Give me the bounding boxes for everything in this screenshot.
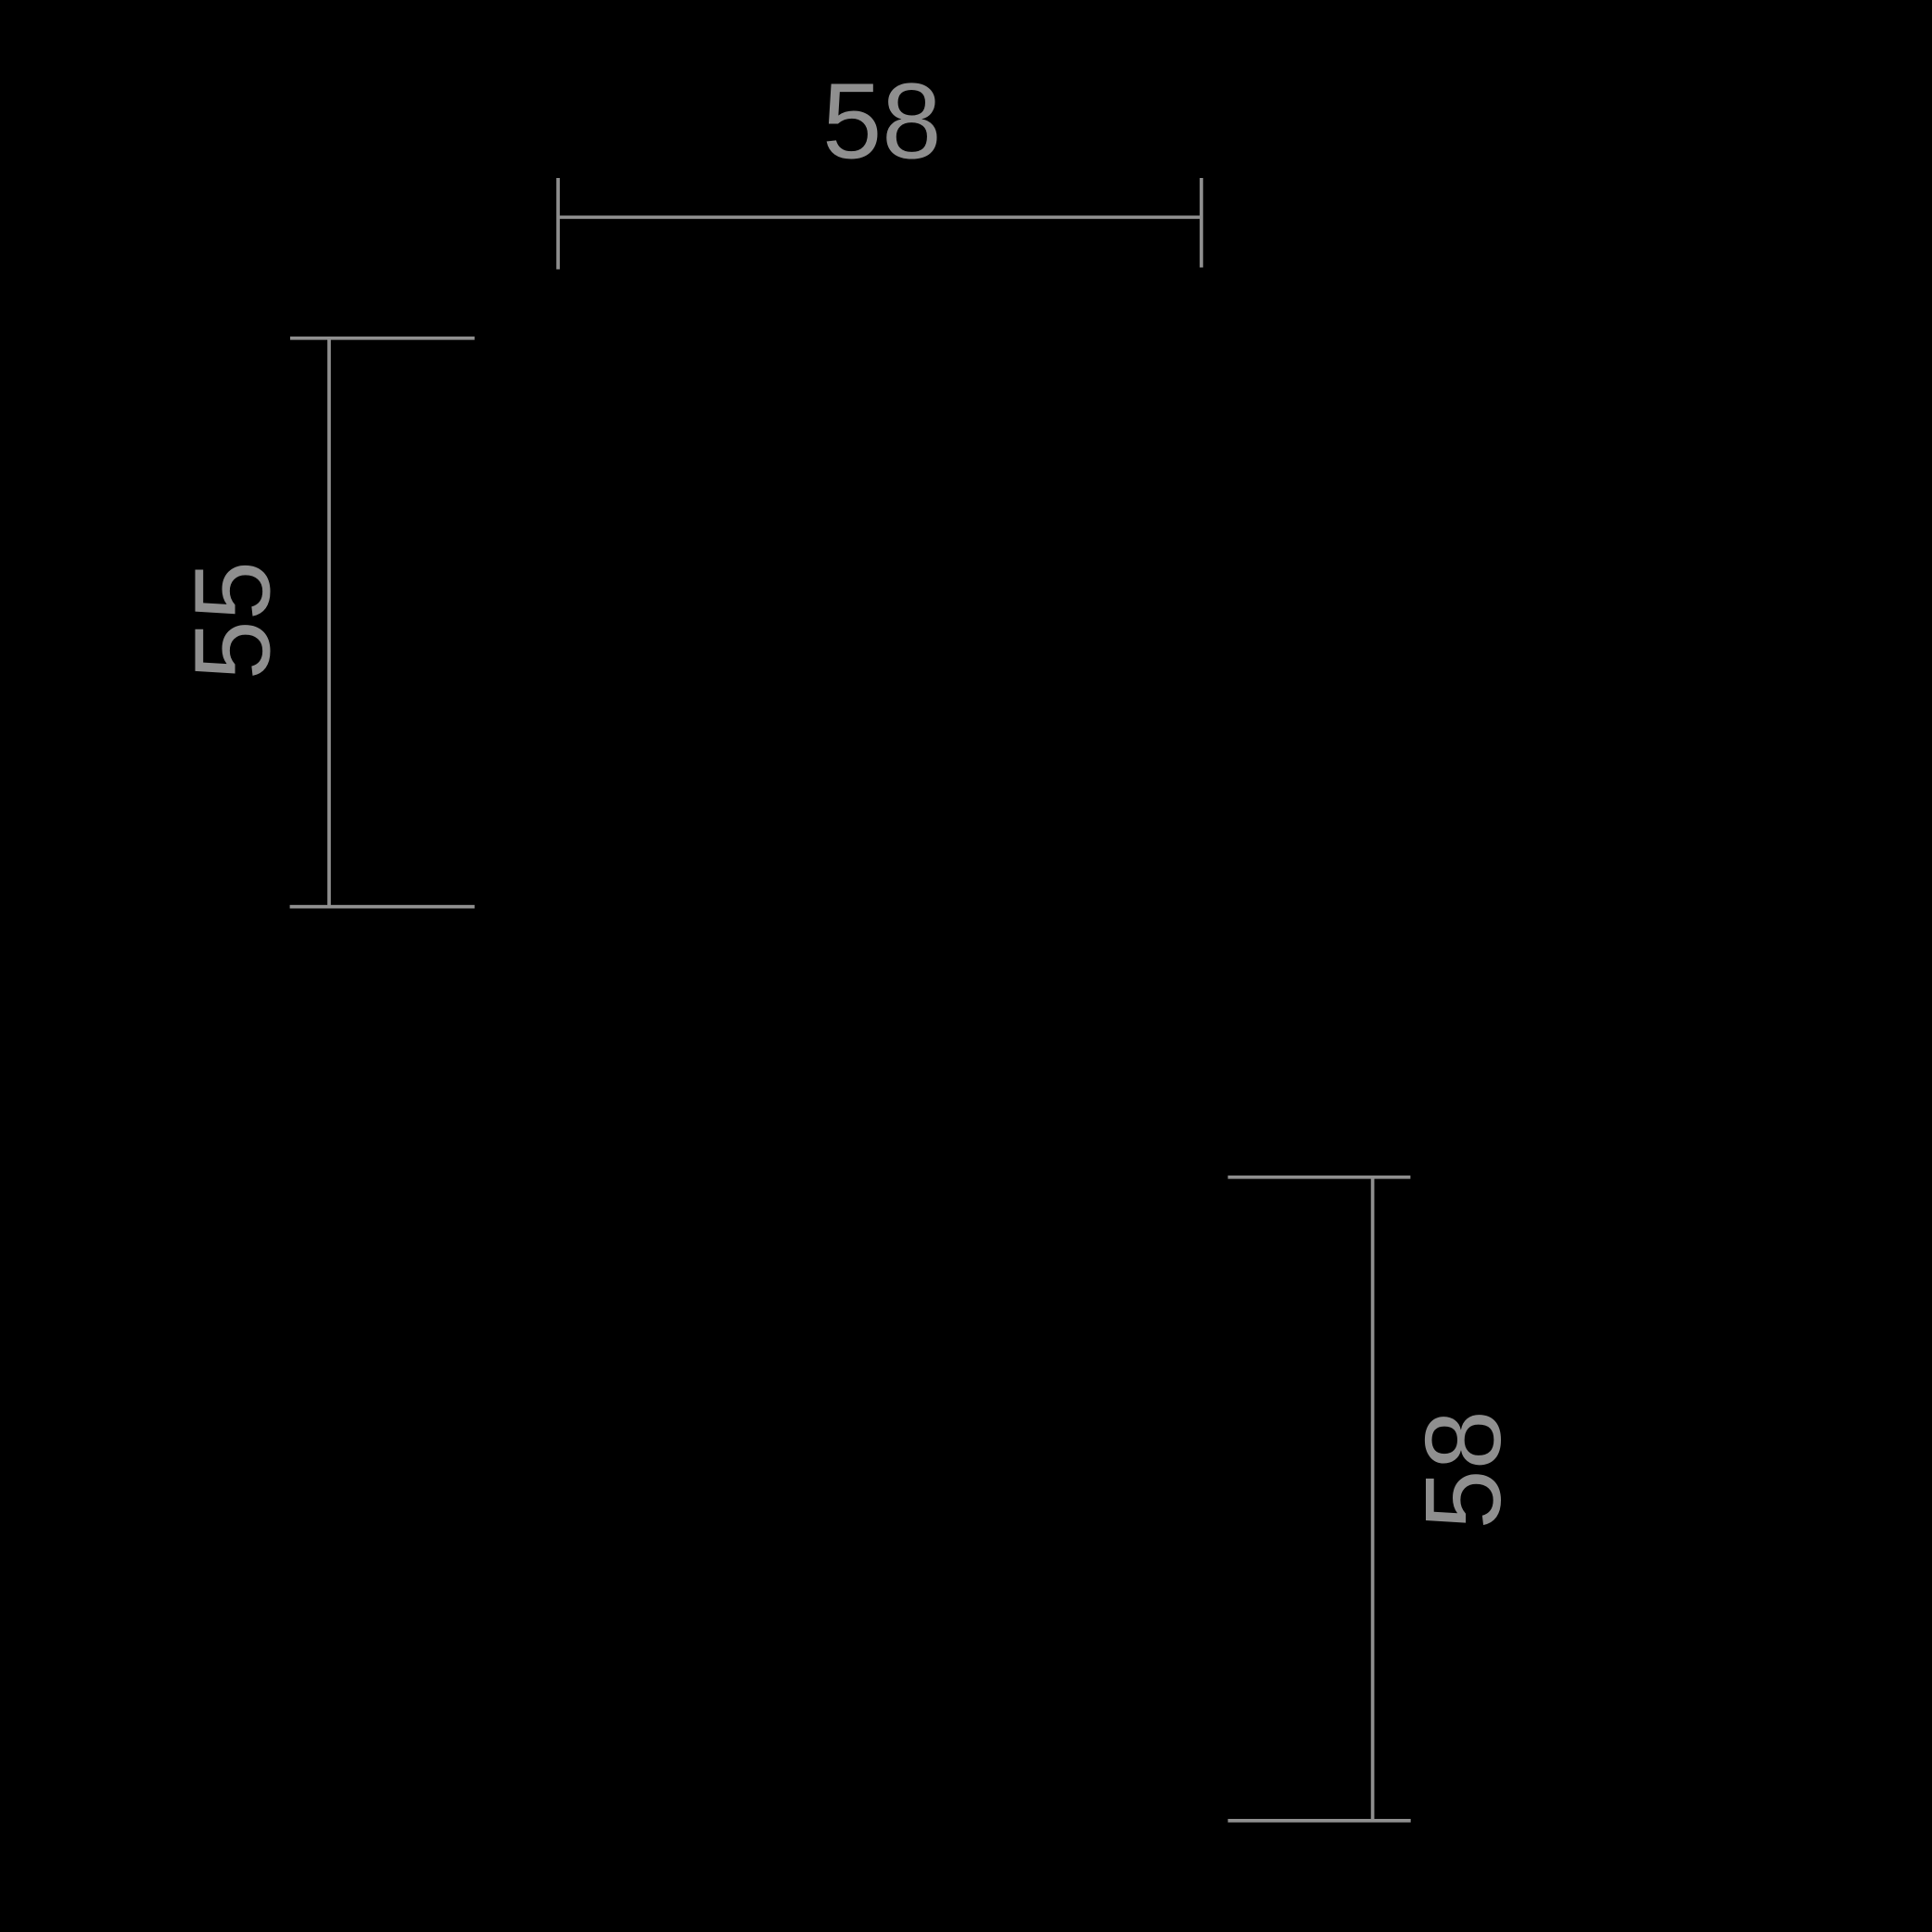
dimension 55 (left height) : dimension line [327,338,331,907]
svg-text:55: 55 [173,561,293,680]
dimension 58 (top width) : left end tick [556,178,560,270]
dimension 58 (right height) : dimension line [1371,1177,1375,1821]
svg-text:58: 58 [1404,1410,1523,1530]
dimension 58 (top width) : right end tick [1200,178,1203,268]
dimension 55 (left height) : bottom end tick [290,905,475,909]
dimension 55 (left height) : value label "55" rotated [173,561,293,680]
dimension 58 (top width) : dimension line [558,215,1201,219]
dimension 55 (left height) : top end tick [290,337,475,340]
svg-text:58: 58 [822,62,942,182]
dimension 58 (right height) : top end tick [1228,1176,1411,1179]
dimension 58 (right height) : value label "58" rotated [1404,1410,1523,1530]
dimension 58 (right height) : bottom end tick [1228,1819,1411,1823]
